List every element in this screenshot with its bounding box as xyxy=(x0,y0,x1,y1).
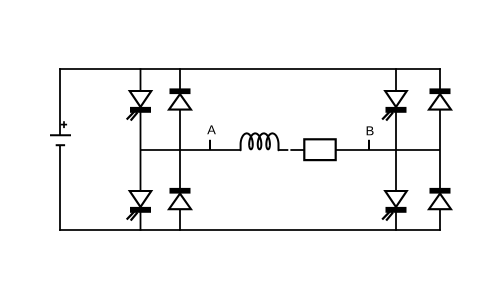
diode D3 (bottom left) xyxy=(169,188,191,209)
load resistor R1 (box) xyxy=(304,139,335,160)
thyristor Q3 (bottom left) xyxy=(127,191,152,221)
thyristor Q1 (top left) xyxy=(127,91,152,121)
node B label xyxy=(367,126,374,135)
node A label xyxy=(207,125,216,134)
battery V1 positive plate xyxy=(50,134,71,136)
battery V1 plus sign xyxy=(61,121,67,128)
wire: thyristor branch 1 vertical xyxy=(140,68,142,231)
diode D1 (top left) xyxy=(169,88,191,109)
wire: middle bus segment left (node A side) xyxy=(141,149,241,151)
inductor L1 xyxy=(241,133,279,150)
wire: middle bus segment coil-to-box xyxy=(279,149,289,151)
thyristor Q4 (bottom right) xyxy=(382,191,407,221)
wire: diode branch 1 vertical xyxy=(179,68,181,231)
wire: middle bus segment right (node B side) xyxy=(336,149,440,151)
wire: thyristor branch 2 vertical xyxy=(395,68,397,231)
node B tick xyxy=(368,140,370,151)
wire: middle bus segment gap-to-box xyxy=(290,149,304,151)
wire: bottom bus xyxy=(59,229,441,231)
thyristor Q2 (top right) xyxy=(382,91,407,121)
battery V1 negative plate xyxy=(56,144,65,146)
diode D2 (top right) xyxy=(429,88,451,109)
wire: battery branch upper xyxy=(59,68,61,135)
wire: right bus vertical xyxy=(439,68,441,231)
wire: top bus xyxy=(59,68,441,70)
diode D4 (bottom right) xyxy=(429,188,451,209)
node A tick xyxy=(209,140,211,151)
wire: battery branch lower xyxy=(59,145,61,231)
